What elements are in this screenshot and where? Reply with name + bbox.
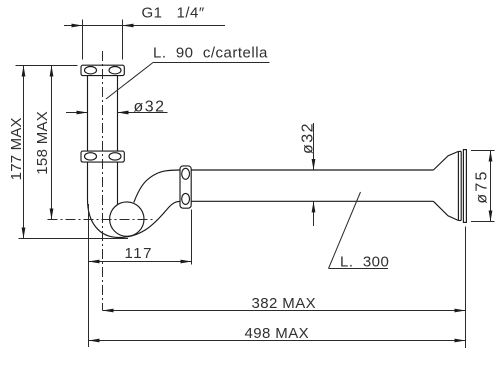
svg-text:L. 300: L. 300	[340, 254, 389, 271]
inlet flange F2 (lower)	[81, 151, 124, 162]
inlet pipe (vertical, below lower flange)	[88, 162, 118, 205]
trap bulb	[110, 202, 144, 236]
dimension G1 1/4" lines	[64, 20, 225, 60]
arrowheads G1 dimension	[72, 24, 83, 28]
centerline horizontal (trap axis)	[48, 219, 156, 221]
leader L.90	[106, 63, 270, 100]
svg-text:L. 90 c/cartella: L. 90 c/cartella	[153, 45, 268, 62]
leader L.300	[329, 192, 389, 269]
svg-text:ø32: ø32	[134, 99, 166, 116]
wall rosette ring	[458, 151, 461, 220]
dimension dia32 outlet lines	[313, 123, 315, 226]
arrowheads 117	[89, 260, 100, 264]
svg-text:498 MAX: 498 MAX	[245, 325, 310, 342]
centerline vertical (inlet pipe axis)	[102, 51, 104, 311]
inlet flange F1 (top)	[81, 65, 124, 75]
dimension dia32 inlet lines	[66, 112, 168, 114]
wall rosette disc	[463, 150, 466, 223]
wall rosette cone	[433, 151, 458, 220]
arrowheads 177 MAX	[22, 66, 26, 77]
arrowheads 382 MAX	[103, 309, 114, 313]
arrowheads dia75	[489, 151, 493, 162]
svg-text:117: 117	[125, 245, 153, 262]
svg-text:ø32: ø32	[300, 122, 317, 154]
outlet nut N1	[180, 166, 191, 208]
svg-text:ø75: ø75	[474, 169, 491, 203]
dimension 158 MAX line	[51, 66, 53, 220]
dimension 382 MAX line	[103, 227, 466, 349]
dimension 177 MAX line	[16, 66, 129, 239]
svg-text:G1 1/4″: G1 1/4″	[142, 5, 205, 22]
arrowheads 158 MAX	[50, 66, 54, 77]
arrowheads dia32 outlet	[312, 159, 316, 170]
svg-text:158 MAX: 158 MAX	[34, 111, 51, 175]
trap inner curve	[134, 170, 180, 203]
dimension 117 lines	[89, 204, 192, 347]
outlet pipe (horizontal)	[192, 170, 434, 201]
svg-text:382 MAX: 382 MAX	[252, 295, 317, 312]
dimension dia75 lines	[471, 151, 495, 222]
arrowheads dia32 inlet	[77, 111, 88, 115]
arrowheads 498 MAX	[89, 339, 100, 343]
inlet pipe (vertical, between flanges)	[88, 76, 118, 152]
svg-text:177 MAX: 177 MAX	[8, 117, 25, 180]
trap outer curve	[87, 199, 179, 238]
dimension 498 MAX line	[89, 340, 466, 342]
